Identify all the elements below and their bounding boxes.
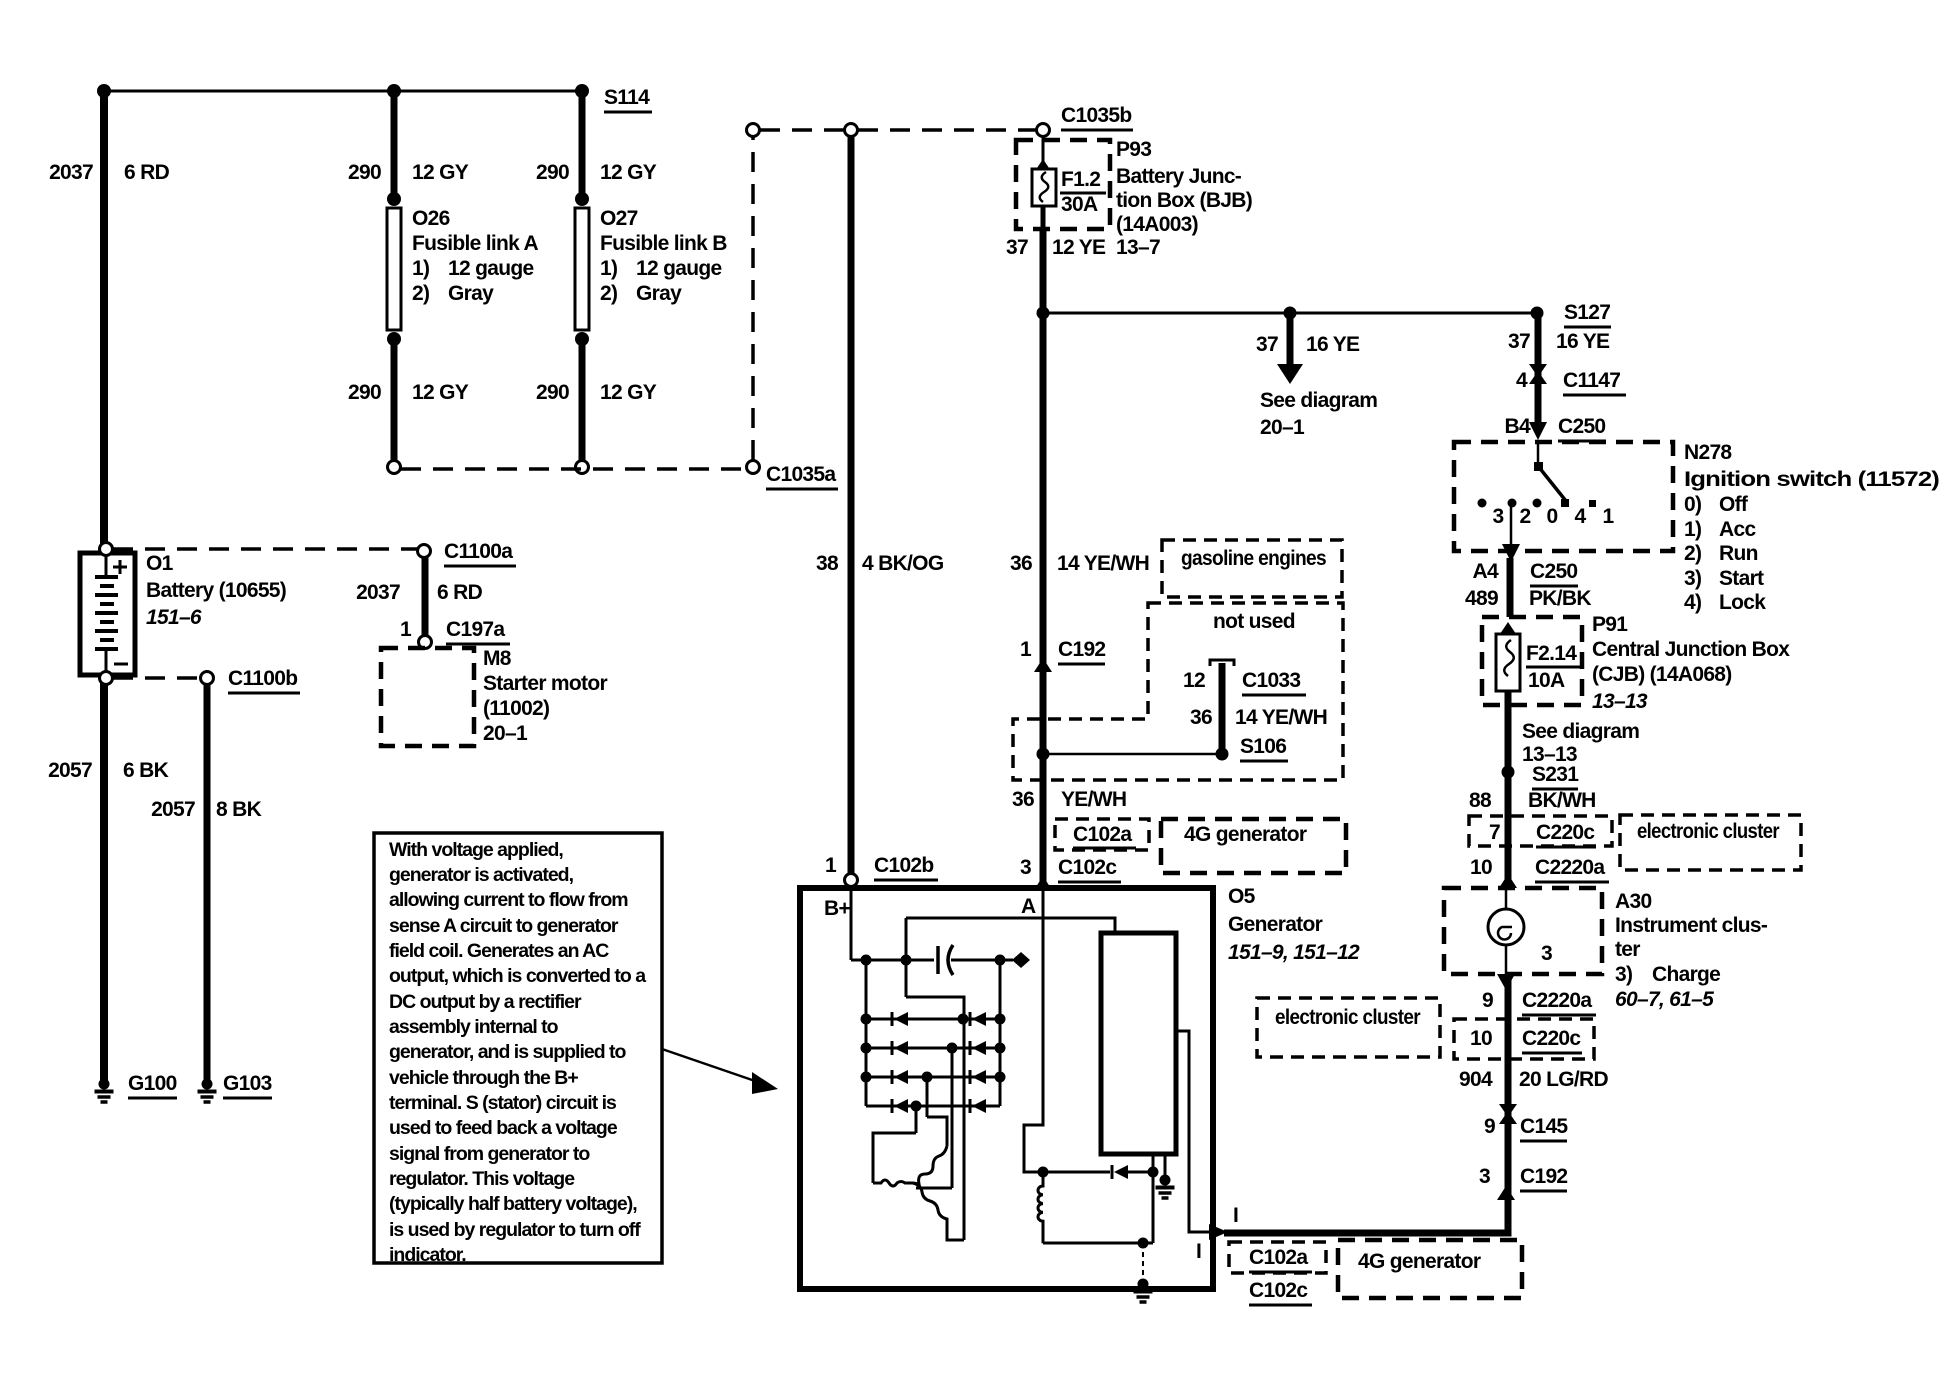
node stator tap row2: [947, 1043, 958, 1054]
central junction box P91 dashed box: [1482, 617, 1582, 705]
svg-text:151–9, 151–12: 151–9, 151–12: [1228, 941, 1360, 964]
svg-text:6 RD: 6 RD: [124, 161, 170, 184]
node S127: [1531, 307, 1544, 320]
svg-text:O27: O27: [600, 207, 638, 230]
svg-text:Gray: Gray: [448, 282, 494, 305]
fuse F2.14 element squiggle: [1504, 640, 1514, 676]
svg-text:20–1: 20–1: [1260, 416, 1305, 439]
dashed wire from battery to C1100a: [113, 547, 418, 551]
svg-text:2: 2: [1520, 505, 1531, 528]
node bus dots rows: [861, 1014, 872, 1025]
svg-text:O1: O1: [146, 552, 174, 575]
svg-text:1): 1): [1684, 518, 1701, 541]
svg-text:1: 1: [825, 854, 837, 877]
connector arrow below A30: [1497, 974, 1515, 990]
electronic cluster dashed box (left): [1257, 998, 1440, 1057]
wire 904 20 LG/RD lower thick segment: [1505, 974, 1512, 1232]
wire 290 12 GY lower segment B: [579, 339, 586, 461]
node on rail at left bus: [861, 955, 872, 966]
arrow see diagram 20-1: [1287, 316, 1294, 366]
diode row1 left: [894, 1012, 908, 1026]
svg-text:signal from generator to: signal from generator to: [389, 1143, 590, 1165]
svg-text:gasoline engines: gasoline engines: [1181, 547, 1326, 570]
gasoline engines dashed box: [1162, 540, 1342, 597]
node field bottom: [1138, 1238, 1149, 1249]
svg-text:YE/WH: YE/WH: [1061, 788, 1126, 811]
svg-text:2057: 2057: [48, 759, 92, 782]
wire S106 branch: [1043, 753, 1222, 756]
svg-text:vehicle through the B+: vehicle through the B+: [389, 1067, 578, 1089]
svg-text:C250: C250: [1530, 560, 1577, 583]
svg-text:2): 2): [412, 282, 429, 305]
dashed wire battery bottom to C1100b: [113, 676, 200, 680]
svg-text:C1147: C1147: [1563, 369, 1620, 392]
wire regulator ground stub: [1164, 1154, 1167, 1177]
svg-text:3): 3): [1684, 567, 1701, 590]
wire diode row 2: [866, 1047, 1000, 1050]
wire rectifier left bus: [865, 960, 868, 1106]
svg-text:indicator.: indicator.: [389, 1244, 466, 1266]
svg-text:36: 36: [1010, 552, 1032, 575]
battery O1 body: [80, 553, 135, 675]
wire 38 4 BK/OG: [848, 137, 855, 874]
wire diode row 1: [866, 1018, 1000, 1021]
connector box C102a (top): [1055, 819, 1149, 850]
wire 489 PK/BK: [1507, 558, 1514, 617]
svg-text:4): 4): [1684, 591, 1701, 614]
note text box: [374, 833, 662, 1263]
ground G103: [198, 1079, 217, 1103]
svg-text:4 BK/OG: 4 BK/OG: [862, 552, 944, 575]
wire 37 16 YE to ignition switch: [1535, 313, 1542, 424]
battery bottom stub: [105, 649, 108, 675]
electronic cluster dashed box (right): [1620, 815, 1801, 870]
wire 290 12 GY upper segment A: [391, 91, 398, 198]
wire into indicator bulb: [1505, 888, 1508, 910]
4G generator dashed box (lower): [1338, 1240, 1522, 1298]
generator O5 box: [800, 888, 1213, 1289]
svg-text:10A: 10A: [1528, 669, 1565, 692]
wire 36 14 YE/WH main vertical: [1040, 229, 1047, 884]
svg-text:3: 3: [1493, 505, 1504, 528]
capacitor plate left: [936, 946, 940, 974]
wire below bulb: [1505, 945, 1508, 974]
node field rail left: [1038, 1167, 1049, 1178]
svg-text:generator is activated,: generator is activated,: [389, 864, 574, 886]
connector C145 bowtie: [1499, 1104, 1517, 1117]
svg-text:Central Junction Box: Central Junction Box: [1592, 638, 1790, 661]
svg-text:36: 36: [1190, 706, 1212, 729]
wire stator phase d step: [873, 1133, 916, 1183]
wire stator neutral to case ground: [1142, 1243, 1144, 1281]
fusible link O27 body: [575, 208, 589, 330]
svg-text:Fusible link B: Fusible link B: [600, 232, 727, 255]
svg-text:See diagram: See diagram: [1522, 720, 1639, 743]
wire 2057 6 BK to ground: [100, 683, 108, 1080]
wire field bottom rail: [1043, 1242, 1153, 1245]
switch blade: [1538, 466, 1566, 501]
svg-text:S106: S106: [1240, 735, 1286, 758]
connector arrow into generator A: [1034, 876, 1052, 890]
svg-text:9: 9: [1482, 989, 1493, 1012]
svg-text:1: 1: [1603, 505, 1615, 528]
svg-text:G100: G100: [128, 1072, 177, 1095]
svg-text:14 YE/WH: 14 YE/WH: [1235, 706, 1327, 729]
svg-text:20 LG/RD: 20 LG/RD: [1519, 1068, 1608, 1091]
svg-text:489: 489: [1465, 587, 1498, 610]
node junction on wire at S127 branch: [1037, 307, 1050, 320]
node: fusible link A upper junction: [387, 192, 401, 206]
connector arrow C192: [1034, 658, 1052, 672]
svg-text:12 YE: 12 YE: [1052, 236, 1106, 259]
svg-text:used to feed back a voltage: used to feed back a voltage: [389, 1117, 618, 1139]
svg-text:sense A circuit to generator: sense A circuit to generator: [389, 915, 619, 937]
connector arrow into F2.14: [1500, 622, 1516, 634]
svg-text:N278: N278: [1684, 441, 1732, 464]
wire: top bus from battery feed to S114: [104, 90, 583, 93]
battery junction box P93 dashed box: [1016, 140, 1110, 229]
svg-text:10: 10: [1470, 856, 1492, 879]
dashed wire top to wire 38: [760, 128, 844, 132]
stub wire C1033: [1219, 663, 1226, 752]
node field rail right: [1148, 1167, 1159, 1178]
svg-text:DC output by a rectifier: DC output by a rectifier: [389, 991, 582, 1013]
svg-text:Battery Junc-: Battery Junc-: [1116, 165, 1242, 188]
svg-text:37: 37: [1508, 330, 1530, 353]
wire B+ internal: [850, 891, 853, 960]
svg-text:S114: S114: [604, 86, 650, 109]
wire stator phase c vertical: [926, 1077, 929, 1117]
wire A internal: [1024, 891, 1043, 1172]
svg-text:6 BK: 6 BK: [123, 759, 169, 782]
svg-text:C2220a: C2220a: [1535, 856, 1605, 879]
svg-text:PK/BK: PK/BK: [1529, 587, 1591, 610]
svg-text:A30: A30: [1615, 890, 1651, 913]
svg-text:C1035a: C1035a: [766, 463, 836, 486]
svg-text:M8: M8: [483, 647, 512, 670]
svg-text:C102c: C102c: [1249, 1279, 1308, 1302]
connector circle C102b: [845, 874, 858, 887]
svg-text:12 GY: 12 GY: [600, 381, 657, 404]
svg-text:3): 3): [1615, 963, 1632, 986]
svg-text:4: 4: [1575, 505, 1587, 528]
svg-text:13–7: 13–7: [1116, 236, 1160, 259]
wire 88 BK/WH down from P91: [1505, 691, 1512, 888]
connector arrow A4 C250: [1502, 544, 1520, 562]
stator winding upper coil: [913, 1146, 947, 1184]
svg-text:P91: P91: [1592, 613, 1628, 636]
connector circle battery top: [100, 543, 113, 556]
diode row4 left: [894, 1099, 908, 1113]
svg-text:2): 2): [600, 282, 617, 305]
svg-text:Generator: Generator: [1228, 913, 1323, 936]
svg-text:(11002): (11002): [483, 697, 549, 720]
dashed wire C1035a up: [751, 136, 755, 460]
connector circle top of wire 38: [845, 124, 858, 137]
svg-text:1): 1): [412, 257, 429, 280]
dashed wire to C1035b: [858, 128, 1037, 132]
svg-text:is used by regulator to turn o: is used by regulator to turn off: [389, 1219, 641, 1241]
svg-text:regulator. This voltage: regulator. This voltage: [389, 1168, 575, 1190]
node: fusible link B lower junction: [575, 332, 589, 346]
svg-text:37: 37: [1256, 333, 1278, 356]
wire stator phase d vertical: [915, 1106, 918, 1133]
node stator tap row3: [922, 1072, 933, 1083]
wire corner to generator I: [1224, 1196, 1508, 1233]
regulator box: [1101, 933, 1176, 1154]
wire rectifier right bus: [999, 960, 1002, 1106]
wire stator feed vertical: [905, 918, 908, 997]
wire 290 12 GY upper segment B: [579, 91, 586, 198]
node stator tap row4: [911, 1101, 922, 1112]
switch contact dots: [1478, 499, 1487, 508]
svg-text:output, which is converted to: output, which is converted to a: [389, 965, 646, 987]
svg-text:Acc: Acc: [1719, 518, 1756, 541]
svg-text:Starter motor: Starter motor: [483, 672, 607, 695]
svg-text:Battery (10655): Battery (10655): [146, 579, 286, 602]
wire 290 12 GY lower segment A: [391, 339, 398, 461]
diode row4 right: [972, 1099, 986, 1113]
diode row1 right: [972, 1012, 986, 1026]
node: fusible link A lower junction: [387, 332, 401, 346]
dashed wire links to C1035a: [401, 467, 746, 471]
svg-text:12 GY: 12 GY: [412, 161, 469, 184]
field diode: [1114, 1165, 1128, 1179]
svg-text:290: 290: [536, 161, 569, 184]
ignition switch N278 dashed box: [1454, 442, 1673, 551]
svg-text:4: 4: [1516, 369, 1528, 392]
svg-text:Start: Start: [1719, 567, 1764, 590]
connector circle at bottom of link B: [576, 461, 589, 474]
svg-text:1: 1: [400, 618, 412, 641]
battery top terminal stub: [105, 553, 108, 575]
wire I output from regulator: [1176, 1031, 1209, 1232]
switch output wire: [1510, 503, 1513, 546]
svg-text:Fusible link A: Fusible link A: [412, 232, 538, 255]
instrument cluster A30 dashed box: [1444, 888, 1602, 974]
svg-text:not used: not used: [1213, 610, 1295, 633]
wire 2037 6 RD to starter: [422, 557, 429, 636]
svg-text:4G generator: 4G generator: [1184, 823, 1307, 846]
svg-text:36: 36: [1012, 788, 1034, 811]
svg-text:Instrument clus-: Instrument clus-: [1615, 914, 1768, 937]
svg-text:C1100b: C1100b: [228, 667, 297, 690]
svg-text:F2.14: F2.14: [1526, 642, 1577, 665]
svg-text:C1100a: C1100a: [444, 540, 513, 563]
field coil winding: [1038, 1172, 1043, 1243]
indicator bulb filament: [1498, 927, 1512, 940]
wire capacitor rail right: [951, 959, 1013, 962]
wire regulator to field rail: [1152, 1154, 1155, 1243]
wire diode row 3: [866, 1076, 1000, 1079]
svg-text:12 GY: 12 GY: [600, 161, 657, 184]
diode row3 right: [972, 1070, 986, 1084]
svg-text:88: 88: [1469, 789, 1492, 812]
svg-text:See diagram: See diagram: [1260, 389, 1377, 412]
svg-text:290: 290: [348, 381, 381, 404]
ground (generator case): [1134, 1279, 1153, 1303]
ground G100: [95, 1079, 114, 1103]
svg-text:12 gauge: 12 gauge: [448, 257, 533, 280]
svg-text:1: 1: [1020, 638, 1032, 661]
svg-text:2037: 2037: [356, 581, 400, 604]
svg-text:terminal. S (stator) circuit: terminal. S (stator) circuit is: [389, 1092, 617, 1114]
svg-text:16 YE: 16 YE: [1556, 330, 1610, 353]
diamond terminal on rail: [1012, 952, 1030, 968]
svg-text:Charge: Charge: [1652, 963, 1720, 986]
svg-text:field coil. Generates an AC: field coil. Generates an AC: [389, 940, 609, 962]
svg-text:C220c: C220c: [1522, 1027, 1581, 1050]
svg-text:S127: S127: [1564, 301, 1610, 324]
connector circle C1035b: [1037, 124, 1050, 137]
svg-text:O5: O5: [1228, 885, 1256, 908]
battery plus symbol: [113, 566, 127, 569]
svg-text:C102a: C102a: [1249, 1246, 1308, 1269]
node junction on main wire at S106 branch: [1037, 748, 1050, 761]
node: junction at fusible link A top: [387, 84, 401, 98]
svg-text:Run: Run: [1719, 542, 1758, 565]
node on rail at stator feed: [901, 955, 912, 966]
svg-text:O26: O26: [412, 207, 450, 230]
wire diode row 4: [866, 1105, 1000, 1108]
wire 2057 8 BK to ground: [204, 684, 211, 1080]
svg-text:C192: C192: [1058, 638, 1105, 661]
wire branch to S127: [1043, 312, 1537, 315]
wire stator phase c step: [927, 1117, 947, 1146]
connector circle at bottom of link A: [388, 461, 401, 474]
fuse F2.14 body: [1496, 634, 1520, 691]
svg-text:allowing current to flow from: allowing current to flow from: [389, 889, 628, 911]
svg-text:38: 38: [816, 552, 839, 575]
svg-text:7: 7: [1489, 821, 1500, 844]
svg-text:2037: 2037: [49, 161, 93, 184]
node stator tap row1: [958, 1014, 969, 1025]
svg-text:9: 9: [1484, 1115, 1495, 1138]
svg-text:12 GY: 12 GY: [412, 381, 469, 404]
connector arrow into A30: [1499, 874, 1517, 888]
stator winding base: [873, 1180, 913, 1186]
fuse F1.2 element squiggle: [1040, 172, 1049, 202]
svg-text:4G generator: 4G generator: [1358, 1250, 1481, 1273]
svg-text:Ignition switch (11572): Ignition switch (11572): [1684, 468, 1939, 491]
svg-text:assembly internal to: assembly internal to: [389, 1016, 559, 1038]
switch pivot wire: [1537, 442, 1540, 464]
svg-text:C102a: C102a: [1073, 823, 1132, 846]
svg-text:C1035b: C1035b: [1061, 104, 1132, 127]
svg-text:C2220a: C2220a: [1522, 989, 1592, 1012]
svg-text:(typically half battery voltag: (typically half battery voltage),: [389, 1193, 637, 1215]
svg-text:B+: B+: [824, 897, 850, 920]
connector circle C1035a: [747, 461, 760, 474]
svg-text:C102c: C102c: [1058, 856, 1117, 879]
indicator bulb circle: [1488, 909, 1524, 945]
connector arrow B4 C250: [1529, 422, 1547, 440]
capacitor plate right (curved): [948, 945, 953, 975]
svg-text:3: 3: [1020, 856, 1031, 879]
starter motor M8 dashed box: [381, 648, 474, 746]
svg-text:(CJB) (14A068): (CJB) (14A068): [1592, 663, 1732, 686]
svg-text:37: 37: [1006, 236, 1028, 259]
svg-text:20–1: 20–1: [483, 722, 528, 745]
svg-text:12: 12: [1183, 669, 1205, 692]
svg-text:8 BK: 8 BK: [216, 798, 262, 821]
connector box C102a (bottom): [1229, 1242, 1326, 1273]
4G generator dashed box (upper): [1161, 819, 1346, 873]
switch pivot: [1534, 462, 1543, 471]
wire stator phase b vertical: [951, 1048, 954, 1188]
svg-text:0: 0: [1547, 505, 1558, 528]
connector box 7 C220c: [1469, 816, 1612, 846]
wire capacitor rail: [851, 959, 934, 962]
wire field rail right: [1128, 1171, 1153, 1174]
svg-text:S231: S231: [1532, 763, 1579, 786]
diode row3 left: [894, 1070, 908, 1084]
svg-text:A: A: [1021, 895, 1036, 918]
battery plates: [95, 575, 118, 579]
wire stator phase b stub: [916, 1187, 952, 1190]
svg-text:ter: ter: [1615, 938, 1640, 961]
diode row2 right: [972, 1041, 986, 1055]
wire sense A to regulator: [906, 918, 1115, 933]
node on rail at right bus: [995, 955, 1006, 966]
connector arrow I output: [1209, 1224, 1228, 1240]
svg-text:1): 1): [600, 257, 617, 280]
connector circle C1100a: [418, 545, 431, 558]
svg-text:904: 904: [1459, 1068, 1493, 1091]
svg-text:10: 10: [1470, 1027, 1492, 1050]
svg-text:A4: A4: [1473, 560, 1499, 583]
not used dashed box outline: [1013, 603, 1343, 780]
svg-text:3: 3: [1479, 1165, 1490, 1188]
svg-text:60–7, 61–5: 60–7, 61–5: [1615, 988, 1714, 1011]
svg-text:Gray: Gray: [636, 282, 682, 305]
C1033 stub top tee: [1210, 660, 1234, 666]
wire below fuse F1.2: [1041, 206, 1046, 229]
connector arrow into F1.2: [1035, 159, 1051, 171]
svg-text:With voltage applied,: With voltage applied,: [389, 839, 563, 861]
svg-text:C250: C250: [1558, 415, 1605, 438]
svg-text:16 YE: 16 YE: [1306, 333, 1360, 356]
wire field rail: [1024, 1171, 1110, 1174]
node S114 junction: [575, 84, 589, 98]
wire stator feed jog: [906, 997, 964, 1240]
stator winding lower coil: [913, 1183, 964, 1240]
svg-text:C102b: C102b: [874, 854, 934, 877]
svg-text:151–6: 151–6: [146, 606, 202, 629]
svg-text:0): 0): [1684, 493, 1701, 516]
svg-text:13–13: 13–13: [1592, 690, 1648, 713]
node S231: [1502, 766, 1515, 779]
diode row2 left: [894, 1041, 908, 1055]
svg-text:290: 290: [536, 381, 569, 404]
note pointer arrow: [662, 1049, 758, 1082]
node: junction at battery wire top: [97, 84, 111, 98]
fusible link O26 body: [387, 208, 401, 330]
svg-text:(14A003): (14A003): [1116, 213, 1198, 236]
svg-text:electronic cluster: electronic cluster: [1275, 1006, 1420, 1029]
svg-text:C145: C145: [1520, 1115, 1568, 1138]
svg-text:C220c: C220c: [1536, 821, 1595, 844]
battery minus symbol: [114, 663, 128, 666]
svg-text:generator, and is supplied to: generator, and is supplied to: [389, 1041, 627, 1063]
svg-text:2): 2): [1684, 542, 1701, 565]
connector box 10 C220c: [1454, 1019, 1594, 1059]
svg-text:14 YE/WH: 14 YE/WH: [1057, 552, 1149, 575]
ground (regulator): [1156, 1175, 1175, 1199]
wire 2037 6 RD battery positive feed: [100, 91, 108, 547]
svg-text:290: 290: [348, 161, 381, 184]
connector circle battery bottom: [100, 672, 113, 685]
